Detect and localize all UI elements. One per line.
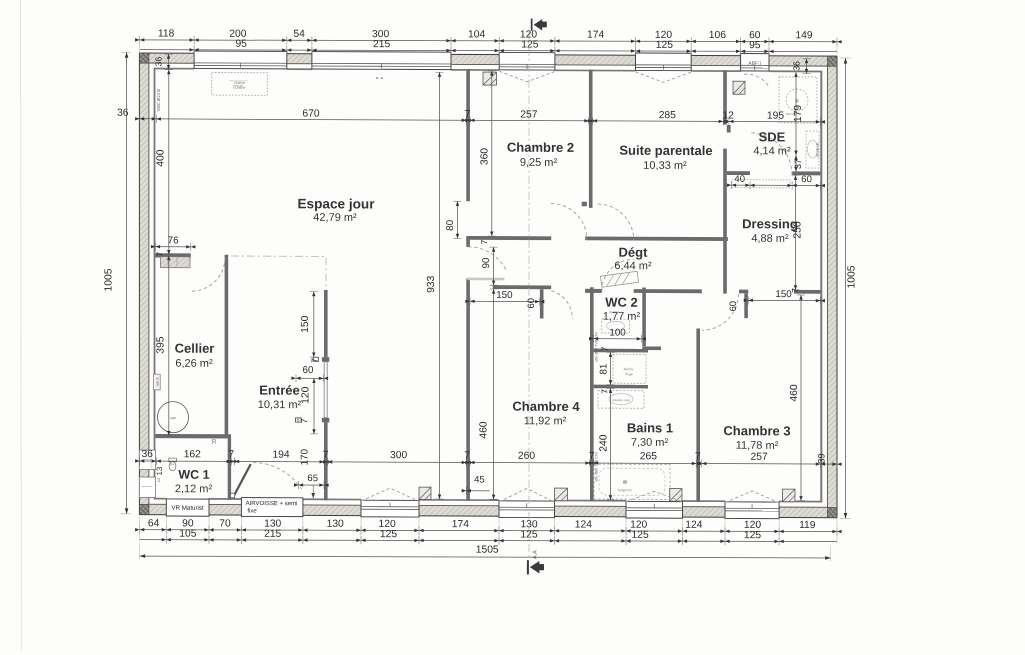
svg-text:7,30 m²: 7,30 m² — [631, 437, 669, 449]
svg-text:4,88 m²: 4,88 m² — [751, 233, 789, 245]
svg-text:60: 60 — [303, 365, 314, 376]
section line A-A — [528, 32, 530, 559]
svg-text:39: 39 — [817, 453, 827, 463]
partition wall: Degt / Chambre 3 — [585, 289, 602, 293]
washbasin Bains — [598, 391, 644, 409]
svg-text:65: 65 — [307, 473, 318, 484]
svg-text:37: 37 — [793, 159, 803, 169]
svg-text:125: 125 — [632, 530, 649, 541]
svg-text:670: 670 — [302, 109, 319, 120]
partition wall: Chambre 2 / Suite parentale — [589, 70, 593, 208]
svg-text:150: 150 — [496, 290, 513, 301]
svg-text:124: 124 — [575, 519, 592, 530]
svg-text:36: 36 — [154, 57, 164, 67]
svg-text:460: 460 — [479, 421, 490, 439]
svg-text:1,77 m²: 1,77 m² — [603, 311, 641, 323]
svg-text:933: 933 — [426, 275, 437, 293]
svg-text:174: 174 — [587, 30, 604, 41]
svg-text:265: 265 — [640, 451, 657, 462]
svg-text:7: 7 — [323, 450, 329, 461]
svg-text:36: 36 — [792, 61, 802, 71]
svg-text:7: 7 — [465, 109, 471, 120]
svg-text:250: 250 — [793, 221, 804, 239]
svg-text:7: 7 — [299, 418, 309, 423]
svg-text:ball.th: ball.th — [156, 377, 160, 386]
west wall vents — [139, 450, 155, 470]
bathtub Bains — [594, 464, 670, 499]
south opening VR Maturist — [166, 499, 209, 516]
door opening Espace jour to Degt — [468, 247, 506, 271]
svg-text:6,26 m²: 6,26 m² — [175, 358, 213, 370]
svg-text:Dressing: Dressing — [742, 216, 798, 231]
svg-text:106: 106 — [709, 30, 726, 41]
duct box Entree south — [419, 487, 431, 499]
svg-text:60: 60 — [526, 298, 536, 308]
dryer closet — [613, 354, 646, 383]
svg-text:ABF:): ABF:) — [748, 61, 761, 67]
svg-text:162: 162 — [184, 449, 201, 460]
svg-text:4,14 m²: 4,14 m² — [753, 145, 791, 157]
duct box Chambre 2 — [483, 72, 497, 85]
wall jamb Chambre 4 door — [540, 289, 544, 318]
shower SDE — [779, 77, 817, 123]
svg-text:7: 7 — [309, 358, 319, 363]
svg-text:7: 7 — [790, 288, 800, 293]
attic hatch Degt — [600, 271, 638, 287]
kitchen unit dashed — [212, 73, 268, 96]
door swing Chambre 2 — [551, 203, 587, 239]
svg-text:linge: linge — [625, 372, 633, 376]
top dimension row 1 — [140, 40, 837, 42]
svg-text:80: 80 — [445, 219, 456, 230]
svg-text:SDE: SDE — [759, 129, 786, 144]
svg-text:215: 215 — [373, 39, 390, 50]
svg-text:195: 195 — [767, 111, 784, 122]
svg-text:40: 40 — [734, 174, 745, 185]
exterior wall: south facade — [139, 504, 166, 515]
svg-text:36x: 36x — [170, 462, 175, 466]
dim 933 interior height — [439, 72, 441, 499]
partition wall: Degt south near Entree — [493, 285, 552, 289]
svg-text:125: 125 — [744, 530, 761, 541]
section arrow A-A bottom — [527, 560, 544, 574]
svg-text:7: 7 — [155, 252, 165, 257]
boundary dash Espace jour / Entree — [231, 256, 326, 290]
wall spur 60 Chambre 3 — [744, 293, 748, 318]
svg-text:130: 130 — [327, 519, 344, 530]
exterior wall: west facade — [139, 53, 149, 515]
svg-text:Suite parentale: Suite parentale — [619, 143, 712, 158]
duct box Chambre 3 south — [783, 489, 796, 502]
svg-text:36: 36 — [117, 108, 129, 119]
washbasin SDE — [806, 131, 819, 168]
door swing Suite parentale — [598, 204, 634, 240]
svg-text:✻: ✻ — [622, 479, 627, 486]
dims 150/60/7 Chambre 3 top — [748, 299, 820, 301]
duct box Bains south — [670, 489, 683, 502]
svg-text:9,25 m²: 9,25 m² — [520, 157, 558, 169]
svg-text:1005: 1005 — [104, 268, 115, 291]
svg-text:174: 174 — [452, 519, 469, 530]
svg-text:VM. Ø80 TVB Ch3: VM. Ø80 TVB Ch3 — [595, 452, 599, 482]
interior dimension row 162/194/300/260/265/257 — [140, 461, 837, 464]
svg-text:260: 260 — [518, 451, 535, 462]
svg-text:100: 100 — [609, 328, 626, 339]
svg-text:125: 125 — [380, 529, 397, 540]
svg-text:R: R — [211, 439, 216, 446]
svg-text:119: 119 — [799, 520, 816, 531]
bottom dimension row 1 — [140, 530, 837, 532]
svg-text:60: 60 — [801, 174, 812, 185]
exterior wall: north facade — [139, 53, 194, 63]
svg-text:Chambre 3: Chambre 3 — [723, 423, 790, 438]
svg-text:125: 125 — [656, 40, 673, 51]
washbasin WC 2 — [602, 319, 630, 333]
svg-text:Espace jour: Espace jour — [297, 196, 375, 211]
svg-text:285: 285 — [659, 110, 676, 121]
svg-text:6,44 m²: 6,44 m² — [614, 260, 652, 272]
duct box SDE — [733, 81, 745, 94]
svg-text:150: 150 — [300, 315, 311, 333]
svg-text:7: 7 — [589, 451, 595, 462]
svg-text:A.A: A.A — [533, 550, 539, 559]
partition wall: Chambre 2 and Suite parentale south — [466, 236, 551, 240]
svg-text:42,79 m²: 42,79 m² — [313, 212, 357, 224]
north window SDE 60 — [741, 54, 769, 72]
svg-text:360: 360 — [480, 148, 491, 166]
door swing Chambre 3 — [702, 294, 739, 331]
svg-text:Chambre 4: Chambre 4 — [512, 399, 580, 414]
svg-text:10,31 m²: 10,31 m² — [258, 399, 302, 411]
svg-text:257: 257 — [751, 452, 768, 463]
svg-text:118: 118 — [158, 29, 175, 40]
north windows: Espace jour 200, Espace jour 300, Chambre 2 120, Suite parentale 120 — [194, 51, 287, 69]
svg-text:✻: ✻ — [795, 98, 799, 104]
svg-text:70: 70 — [219, 518, 231, 529]
svg-text:54: 54 — [293, 29, 305, 40]
svg-text:215: 215 — [264, 529, 281, 540]
duct box Chambre 4 south — [555, 488, 568, 501]
partition wall: Suite parentale / SDE / Dressing — [723, 70, 727, 124]
svg-text:Chambre 2: Chambre 2 — [507, 140, 574, 155]
svg-text:7: 7 — [464, 450, 470, 461]
west overall dimension 1005 — [126, 52, 128, 514]
partition wall: Bains / Chambre 3 — [696, 329, 700, 502]
door swing SDE — [750, 133, 792, 175]
svg-text:125: 125 — [520, 530, 537, 541]
partition walls: WC 2 enclosure — [585, 289, 602, 293]
svg-text:179: 179 — [793, 105, 804, 123]
dims 150/60/120 Entree wall — [313, 292, 315, 358]
svg-text:170: 170 — [300, 449, 311, 466]
east interior dims 179/37/250/460 — [795, 72, 797, 155]
window swing SDE — [744, 74, 769, 87]
svg-text:76: 76 — [168, 235, 179, 246]
svg-text:7: 7 — [600, 389, 610, 394]
door swing Cellier — [191, 257, 225, 291]
svg-text:fixe: fixe — [247, 507, 257, 514]
svg-text:meuble vasq: meuble vasq — [612, 398, 630, 402]
scanner fold line — [21, 0, 22, 650]
svg-text:VR Maturist: VR Maturist — [171, 505, 204, 512]
wall fixture ballon — [154, 374, 161, 390]
svg-text:60: 60 — [728, 301, 738, 311]
svg-text:Cellier: Cellier — [175, 341, 215, 356]
dim 76 Cellier — [156, 246, 191, 248]
svg-text:11,92 m²: 11,92 m² — [524, 415, 567, 427]
svg-text:105: 105 — [179, 529, 196, 540]
svg-text:90: 90 — [481, 257, 492, 268]
svg-text:7: 7 — [600, 346, 610, 351]
svg-text:7: 7 — [695, 451, 701, 462]
partition wall: SDE / Dressing — [727, 171, 750, 175]
dims 65 and 45 — [299, 484, 325, 486]
svg-text:sèche-: sèche- — [624, 367, 636, 371]
svg-text:124: 124 — [685, 520, 702, 531]
dim 100 WC 2 — [594, 338, 642, 340]
partition walls: WC 1 — [156, 434, 232, 439]
svg-text:1005: 1005 — [847, 265, 858, 288]
partition wall: Espace jour / Entree — [324, 290, 328, 357]
svg-text:12: 12 — [722, 110, 734, 121]
svg-text:VM. Ø80 TVB Ch4: VM. Ø80 TVB Ch4 — [595, 332, 599, 362]
dim 360 Chambre 2 — [491, 71, 493, 236]
door swing Chambre 4 — [551, 291, 572, 319]
toilet WC 1 — [169, 462, 176, 471]
svg-text:Entrée: Entrée — [259, 383, 299, 398]
wardrobe shelf Dressing — [732, 180, 790, 188]
svg-text:10,33 m²: 10,33 m² — [643, 160, 687, 172]
svg-text:13: 13 — [155, 467, 164, 476]
svg-text:WC 1: WC 1 — [178, 468, 209, 482]
top dimension row 2 — [140, 50, 837, 52]
dims 90 and 460 Chambre 4 — [493, 247, 495, 285]
svg-text:194: 194 — [272, 450, 289, 461]
tank circle Cellier — [158, 402, 189, 433]
front door AIRVOISSE — [241, 498, 303, 517]
svg-text:400: 400 — [155, 149, 166, 167]
svg-text:VMC Ø13 III: VMC Ø13 III — [156, 89, 161, 112]
exterior wall: east facade — [828, 56, 838, 518]
svg-text:·setup·: ·setup· — [232, 83, 244, 88]
partition wall: Espace jour / Chambre 2 / Chambre 4 — [466, 69, 470, 201]
svg-text:1505: 1505 — [476, 545, 499, 556]
svg-text:Bains 1: Bains 1 — [627, 420, 673, 435]
svg-text:WC 2: WC 2 — [605, 295, 638, 310]
svg-text:cav: cav — [170, 416, 176, 420]
partition walls: Cellier — [225, 255, 229, 438]
svg-text:Dégt: Dégt — [619, 245, 649, 260]
svg-text:95: 95 — [235, 39, 247, 50]
wall corner posts — [139, 53, 149, 63]
svg-text:95: 95 — [749, 40, 761, 51]
east overall dimension 1005 — [845, 58, 847, 519]
svg-text:11,78 m²: 11,78 m² — [736, 440, 779, 452]
svg-text:257: 257 — [520, 110, 537, 121]
dim 80 opening — [457, 201, 459, 238]
dims 81/240 Bains — [610, 352, 612, 384]
svg-text:baignoire: baignoire — [618, 488, 632, 492]
front door swing — [253, 463, 302, 490]
west interior dims 400/395 — [168, 70, 170, 255]
interior dimension row 670/257/285/195 — [140, 119, 821, 122]
svg-text:13: 13 — [157, 478, 161, 482]
svg-text:395: 395 — [156, 336, 167, 354]
casement symbols on windows — [361, 488, 419, 501]
dims 40/60 SDE — [732, 184, 821, 186]
door swing WC 2 — [602, 259, 634, 291]
bottom dimension row 2 — [140, 540, 837, 542]
partition wall: Chambre 4 / WC2 and Bains — [590, 287, 594, 501]
svg-text:240: 240 — [598, 434, 609, 452]
overall dimension 1505 — [140, 556, 831, 558]
svg-text:7: 7 — [479, 239, 489, 244]
svg-text:460: 460 — [789, 384, 800, 402]
water heater Cellier — [161, 257, 191, 268]
svg-text:45: 45 — [474, 475, 485, 486]
svg-text:36: 36 — [141, 449, 153, 460]
svg-text:125: 125 — [521, 40, 538, 51]
svg-text:300: 300 — [390, 450, 407, 461]
svg-text:104: 104 — [468, 29, 485, 40]
svg-text:81: 81 — [598, 364, 609, 375]
svg-text:2,12 m²: 2,12 m² — [175, 483, 213, 495]
svg-text:Ø0.3E.1B: Ø0.3E.1B — [816, 143, 820, 157]
svg-text:120: 120 — [300, 386, 311, 404]
svg-text:64: 64 — [148, 518, 160, 529]
svg-text:7: 7 — [228, 449, 234, 460]
svg-text:149: 149 — [795, 30, 812, 41]
svg-text:AIRVOISSE + semi: AIRVOISSE + semi — [246, 500, 298, 507]
dims 150/60 Degt — [470, 300, 540, 302]
section arrow A-A top — [531, 19, 547, 31]
south windows: Espace jour 130, Chambre 4 120, Bains 120, Chambre 3 120 — [361, 500, 419, 517]
